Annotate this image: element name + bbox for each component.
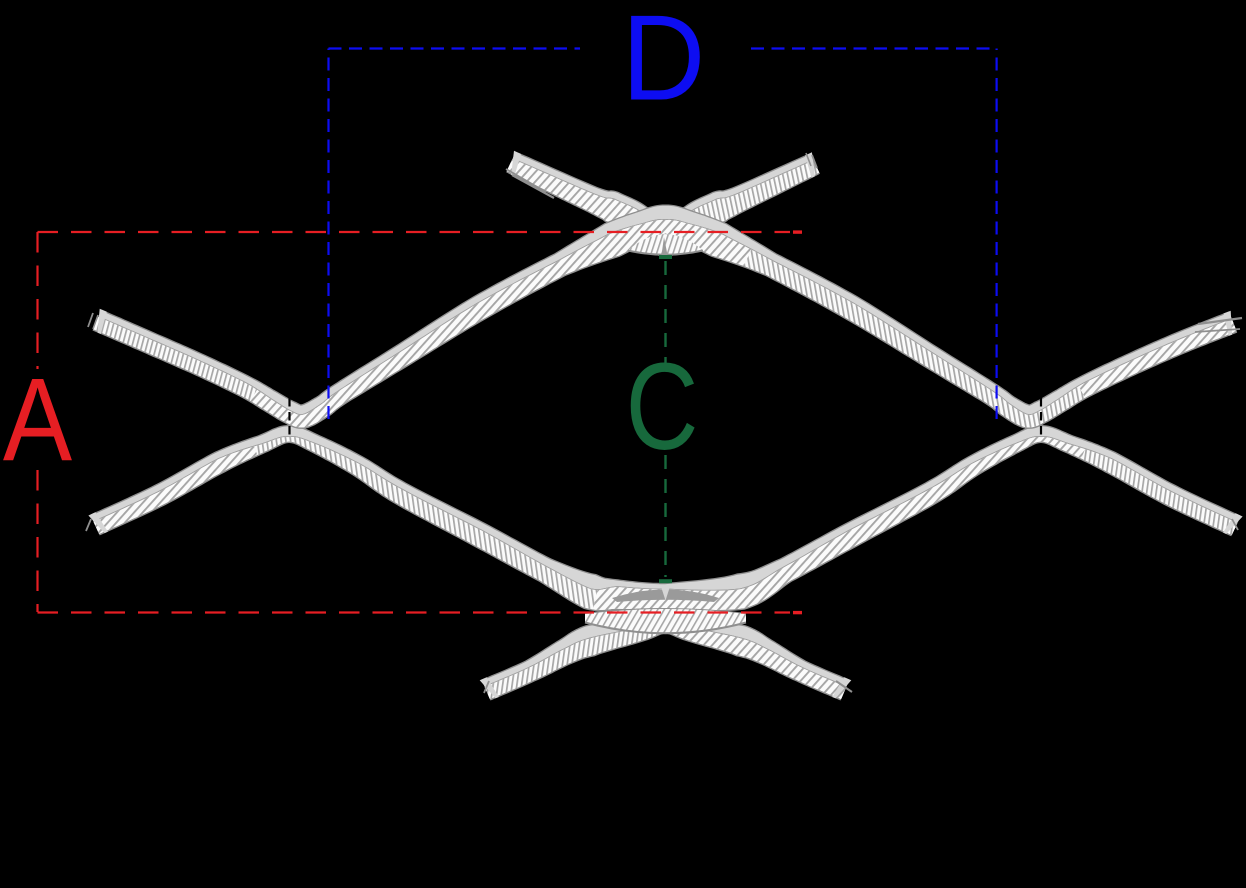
svg-text:A: A: [3, 353, 72, 486]
svg-text:D: D: [622, 0, 706, 126]
svg-text:C: C: [626, 337, 699, 475]
